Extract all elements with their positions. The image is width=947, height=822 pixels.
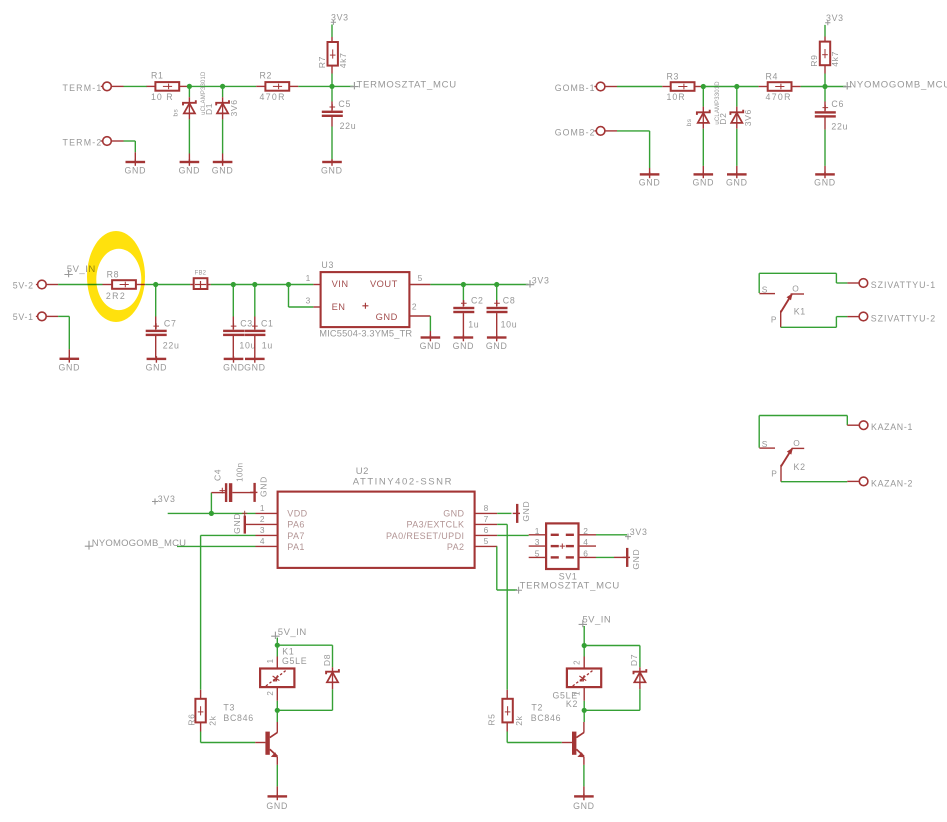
ground GND at U2 pin8 rotated xyxy=(516,504,518,523)
wire U3 GND down xyxy=(429,316,431,331)
ground GND under TERM-2 xyxy=(134,152,136,161)
svg-text:GOMB-1: GOMB-1 xyxy=(555,83,596,93)
wire GOMB-2 to ground xyxy=(617,130,650,132)
svg-text:R3: R3 xyxy=(667,71,680,81)
svg-text:MIC5504-3.3YM5_TR: MIC5504-3.3YM5_TR xyxy=(319,329,412,339)
svg-text:2: 2 xyxy=(260,514,265,524)
svg-text:KAZAN-1: KAZAN-1 xyxy=(871,422,913,432)
transistor T3 BC846 xyxy=(255,742,265,744)
wire SV1 pin2 to 3V3 xyxy=(596,534,627,536)
resistor R5 xyxy=(506,690,508,700)
svg-text:8: 8 xyxy=(484,503,489,513)
wire R7 to node C xyxy=(331,74,333,87)
svg-text:1: 1 xyxy=(306,273,311,283)
node junction F xyxy=(822,84,827,89)
wire node L to 3V3 label xyxy=(497,284,529,286)
wire T2 emitter to ground xyxy=(583,765,585,787)
U3 pin 5 VOUT stub xyxy=(409,284,430,286)
svg-text:3V6: 3V6 xyxy=(743,109,753,126)
svg-text:P: P xyxy=(771,469,777,479)
svg-text:3: 3 xyxy=(535,537,540,547)
pin header SV1 xyxy=(546,523,578,569)
wire GOMB-1 to R3 xyxy=(617,86,662,88)
svg-text:10R: 10R xyxy=(667,92,686,102)
svg-text:GOMB-2: GOMB-2 xyxy=(555,128,596,138)
ground GND right of C4 rotated xyxy=(253,483,255,502)
svg-text:NYOMOGOMB_MCU: NYOMOGOMB_MCU xyxy=(849,79,947,90)
node junction Q xyxy=(582,708,587,713)
svg-text:6: 6 xyxy=(583,548,588,558)
svg-text:bs: bs xyxy=(686,118,693,126)
svg-text:C7: C7 xyxy=(164,318,177,328)
svg-text:C2: C2 xyxy=(471,296,484,306)
svg-text:C5: C5 xyxy=(338,99,351,109)
ground GND under C5 xyxy=(331,159,333,161)
ground GND under GOMB-2 xyxy=(649,168,651,173)
svg-text:3V6: 3V6 xyxy=(229,99,239,116)
svg-text:PA3/EXTCLK: PA3/EXTCLK xyxy=(407,520,465,530)
svg-text:GND: GND xyxy=(443,508,464,518)
connector pin 5V-2 xyxy=(38,280,47,289)
svg-text:1: 1 xyxy=(535,526,540,536)
relay coil K1 G5LE xyxy=(276,657,278,669)
node junction P xyxy=(582,643,587,648)
ground GND under C3 xyxy=(224,358,244,360)
svg-text:GND: GND xyxy=(631,549,641,570)
svg-text:5V_IN: 5V_IN xyxy=(278,627,307,638)
node junction E xyxy=(734,84,739,89)
svg-text:BC846: BC846 xyxy=(531,713,561,723)
svg-text:R4: R4 xyxy=(766,71,779,81)
wire 5V-1 to ground xyxy=(58,315,69,317)
resistor R1 xyxy=(147,85,156,87)
ground GND at SV1 rotated xyxy=(614,556,626,558)
svg-text:O: O xyxy=(792,284,799,294)
svg-text:GND: GND xyxy=(58,363,80,373)
svg-text:GND: GND xyxy=(179,165,201,175)
wire node C to label xyxy=(332,85,354,87)
diode D8 xyxy=(332,667,334,671)
svg-text:GND: GND xyxy=(146,363,168,373)
resistor R2 xyxy=(256,85,265,87)
svg-text:6: 6 xyxy=(484,525,489,535)
capacitor C4 100n xyxy=(210,493,212,511)
svg-text:TERM-2: TERM-2 xyxy=(63,138,103,148)
net label 5V_IN at K2 coil xyxy=(579,620,587,627)
svg-text:TERMOSZTAT_MCU: TERMOSZTAT_MCU xyxy=(357,79,457,90)
svg-text:K2: K2 xyxy=(566,699,578,709)
wire K2 P to KAZAN-2 xyxy=(781,481,847,483)
svg-text:22u: 22u xyxy=(831,122,848,132)
U2 pin 7 PA3 stub xyxy=(475,523,498,525)
svg-text:K1: K1 xyxy=(794,307,806,317)
svg-text:5: 5 xyxy=(535,548,540,558)
wire D7 to node Q xyxy=(639,689,641,710)
svg-text:4k7: 4k7 xyxy=(830,51,840,67)
svg-text:R9: R9 xyxy=(809,55,819,67)
capacitor C3 xyxy=(232,287,234,317)
wire to R4 xyxy=(737,86,759,88)
net label TERMOSZTAT_MCU at SV1 xyxy=(515,587,522,594)
connector pin SZIVATTYU-2 xyxy=(847,316,858,318)
wire PA3 to transistor T2 base column xyxy=(497,523,507,525)
node junction K xyxy=(461,282,466,287)
svg-text:R2: R2 xyxy=(260,71,273,81)
svg-text:5V-2: 5V-2 xyxy=(13,280,34,290)
svg-text:GND: GND xyxy=(321,165,343,175)
connector pin KAZAN-1 xyxy=(847,424,859,426)
svg-text:SZIVATTYU-2: SZIVATTYU-2 xyxy=(871,314,936,324)
wire D1b to ground xyxy=(222,119,224,153)
svg-text:C4: C4 xyxy=(213,469,223,481)
svg-text:5: 5 xyxy=(418,273,423,283)
wire 3V3 to U2 VDD xyxy=(168,512,212,514)
svg-text:GND: GND xyxy=(814,178,836,188)
wire K1 P to SZIVATTYU-2 xyxy=(781,326,837,328)
svg-text:C3: C3 xyxy=(240,318,253,328)
svg-text:D1: D1 xyxy=(204,103,214,115)
wire node G to FB2 xyxy=(156,284,190,286)
svg-text:GND: GND xyxy=(223,363,245,373)
svg-text:2: 2 xyxy=(266,691,275,696)
node junction C xyxy=(329,84,334,89)
U3 pin 3 EN stub xyxy=(313,306,320,308)
node junction A xyxy=(187,84,192,89)
wire junction P down to coil xyxy=(583,646,585,657)
svg-text:R7: R7 xyxy=(317,56,327,68)
svg-text:PA0/RESET/UPDI: PA0/RESET/UPDI xyxy=(386,531,464,541)
net label NYOMOGOMB_MCU top right xyxy=(843,82,851,89)
svg-text:D7: D7 xyxy=(629,654,639,666)
net label NYOMOGOMB_MCU left xyxy=(85,541,93,550)
diode D1b 3V6 xyxy=(222,89,224,97)
connector pin 5V-1 xyxy=(38,312,47,321)
svg-text:2R2: 2R2 xyxy=(106,291,126,301)
U2 pin 6 PA0 stub xyxy=(475,534,498,536)
svg-text:4: 4 xyxy=(583,537,588,547)
wire R9 to node F xyxy=(824,74,826,87)
svg-text:10u: 10u xyxy=(239,340,256,350)
wire C1 to ground xyxy=(254,336,256,358)
connector pin GOMB-1 xyxy=(596,82,605,91)
wire R3 to D2 node xyxy=(703,86,737,88)
highlight yellow circle around R8 xyxy=(87,231,145,322)
ground GND under T2 xyxy=(583,786,585,795)
resistor R9 xyxy=(824,37,826,42)
svg-text:GND: GND xyxy=(453,341,475,351)
svg-text:GND: GND xyxy=(258,476,268,497)
svg-text:T3: T3 xyxy=(223,702,235,712)
svg-text:TERM-1: TERM-1 xyxy=(63,83,103,93)
wire pin8 to ground xyxy=(497,512,511,514)
node junction G xyxy=(153,282,158,287)
wire coil K2 to node Q xyxy=(583,701,585,711)
wire node H to node I xyxy=(233,284,255,286)
wire junction M to VDD stub xyxy=(211,512,255,514)
wire node J to U3 VIN xyxy=(289,284,314,286)
node junction L xyxy=(494,282,499,287)
net label 5V_IN at K1 coil xyxy=(271,632,279,639)
wire PA7 net xyxy=(201,534,256,536)
svg-text:U3: U3 xyxy=(321,260,334,270)
wire R4 to node F xyxy=(801,86,825,88)
diode D2b 3V6 xyxy=(736,89,738,107)
resistor R3 xyxy=(662,86,671,88)
svg-text:3V3: 3V3 xyxy=(158,494,176,504)
wire C6 to ground xyxy=(824,130,826,166)
net label 3V3 at SV1 xyxy=(625,534,631,540)
ground GND under C6 xyxy=(824,166,826,173)
svg-text:C6: C6 xyxy=(831,99,844,109)
ground GND at U2 pin2 rotated xyxy=(244,516,246,534)
svg-text:GND: GND xyxy=(212,165,234,175)
svg-text:SV1: SV1 xyxy=(559,572,578,582)
svg-text:2: 2 xyxy=(412,302,417,312)
node junction I xyxy=(252,282,257,287)
capacitor C5 xyxy=(331,89,333,102)
svg-text:TERMOSZTAT_MCU: TERMOSZTAT_MCU xyxy=(520,581,620,592)
wire node K to node L xyxy=(463,284,496,286)
svg-text:GND: GND xyxy=(232,513,242,534)
svg-text:R1: R1 xyxy=(151,71,164,81)
svg-text:1u: 1u xyxy=(262,340,273,350)
voltage regulator U3 MIC5504 xyxy=(321,272,410,327)
wire R1 to D1 node xyxy=(189,85,222,87)
U2 pin 4 PA1 stub xyxy=(256,545,278,547)
connector pin GOMB-2 xyxy=(596,127,605,136)
wire R2 to node C xyxy=(298,85,332,87)
ground GND under U3 xyxy=(429,331,431,336)
wire node I to node J xyxy=(255,284,289,286)
svg-text:5V_IN: 5V_IN xyxy=(582,615,611,626)
svg-text:10 R: 10 R xyxy=(151,92,174,102)
svg-text:U2: U2 xyxy=(356,466,369,477)
wire R5 to T2 base xyxy=(506,732,508,743)
relay contact K1 xyxy=(758,273,760,293)
wire C5 to ground xyxy=(331,127,333,160)
svg-text:3: 3 xyxy=(260,525,265,535)
connector pin SZIVATTYU-1 xyxy=(847,282,858,284)
wire PA2 down to label xyxy=(496,546,498,590)
capacitor C2 xyxy=(462,287,464,300)
svg-text:470R: 470R xyxy=(260,92,286,102)
wire coil K1 to node O xyxy=(276,701,278,711)
svg-text:5V-1: 5V-1 xyxy=(13,312,34,322)
node junction H xyxy=(231,282,236,287)
transistor T2 BC846 xyxy=(562,742,572,744)
capacitor C6 xyxy=(824,89,826,102)
svg-text:K1: K1 xyxy=(282,647,294,657)
svg-text:GND: GND xyxy=(124,165,146,175)
ground GND under C7 xyxy=(147,358,167,360)
wire EN from node J xyxy=(288,285,290,308)
svg-text:K2: K2 xyxy=(794,462,806,472)
diode D2 (uCLAMP3301D) xyxy=(702,89,704,107)
node TERM-1 net wire xyxy=(124,85,148,87)
svg-text:4k7: 4k7 xyxy=(338,53,348,69)
svg-text:O: O xyxy=(793,438,800,448)
svg-text:3V3: 3V3 xyxy=(532,276,550,286)
svg-text:T2: T2 xyxy=(531,702,543,712)
wire 5V_IN to coil xyxy=(276,638,278,646)
ground GND under T3 xyxy=(276,786,278,795)
ground GND under 5V-1 xyxy=(68,349,70,357)
wire junction N to D8 xyxy=(277,644,332,646)
node junction J xyxy=(286,282,291,287)
node junction M xyxy=(209,511,214,516)
U2 pin 8 GND stub xyxy=(475,512,498,514)
resistor R8 xyxy=(103,284,113,286)
svg-text:GND: GND xyxy=(266,801,288,811)
wire C3 to ground xyxy=(232,336,234,358)
wire junction N down to coil xyxy=(276,645,278,656)
resistor R6 xyxy=(200,690,202,700)
svg-text:22u: 22u xyxy=(163,340,180,350)
svg-text:3V3: 3V3 xyxy=(630,527,648,537)
svg-text:PA2: PA2 xyxy=(447,542,465,552)
resistor R4 xyxy=(759,86,768,88)
wire C7 to ground xyxy=(155,336,157,358)
wire C8 to ground xyxy=(496,313,498,336)
svg-text:BC846: BC846 xyxy=(223,713,253,723)
svg-text:22u: 22u xyxy=(340,121,357,131)
svg-text:D2: D2 xyxy=(718,113,728,125)
svg-text:GND: GND xyxy=(692,178,714,188)
ground GND under D2b xyxy=(736,166,738,173)
svg-text:SZIVATTYU-1: SZIVATTYU-1 xyxy=(871,280,936,290)
node junction N xyxy=(275,643,280,648)
wire 5V-2 to R8 xyxy=(58,284,102,286)
svg-text:PA1: PA1 xyxy=(287,542,305,552)
ground GND under D2 xyxy=(702,166,704,173)
U2 pin 1 VDD stub xyxy=(256,512,278,514)
wire to R2 xyxy=(223,85,257,87)
wire PA0 to SV1 pin1 xyxy=(497,534,529,536)
svg-text:4: 4 xyxy=(260,536,265,546)
svg-text:3V3: 3V3 xyxy=(826,13,844,23)
wire junction P to D7 xyxy=(584,645,640,647)
wire D2 to ground xyxy=(702,129,704,166)
svg-text:bs: bs xyxy=(172,108,179,116)
svg-text:ATTINY402-SSNR: ATTINY402-SSNR xyxy=(353,477,453,488)
wire VOUT to 3V3 xyxy=(430,284,463,286)
ferrite bead FB2 xyxy=(190,284,194,286)
svg-text:R8: R8 xyxy=(107,270,120,280)
svg-text:100n: 100n xyxy=(236,462,245,481)
svg-text:7: 7 xyxy=(484,514,489,524)
U2 pin 5 PA2 stub xyxy=(475,545,498,547)
capacitor C1 xyxy=(254,287,256,317)
svg-text:VDD: VDD xyxy=(287,508,307,518)
svg-text:3: 3 xyxy=(306,295,311,305)
node junction B xyxy=(220,84,225,89)
svg-text:PA6: PA6 xyxy=(287,520,305,530)
connector pin KAZAN-2 xyxy=(847,480,859,482)
node junction D xyxy=(701,84,706,89)
svg-text:R6: R6 xyxy=(186,714,196,726)
wire 5V_IN to K2 coil xyxy=(583,626,585,646)
svg-text:GND: GND xyxy=(486,341,508,351)
svg-text:VOUT: VOUT xyxy=(370,279,398,289)
ground GND under C1 xyxy=(245,358,265,360)
wire R6 to T3 base xyxy=(200,732,202,743)
svg-text:GND: GND xyxy=(376,312,398,322)
svg-text:GND: GND xyxy=(420,341,442,351)
wire C2 to ground xyxy=(462,313,464,336)
svg-text:D8: D8 xyxy=(322,654,332,666)
svg-text:1: 1 xyxy=(260,503,265,513)
wire D1 to ground xyxy=(188,119,190,153)
wire node F to label xyxy=(825,86,846,88)
svg-text:VIN: VIN xyxy=(332,279,349,289)
svg-text:10u: 10u xyxy=(501,320,518,330)
ground GND under D1 xyxy=(188,154,190,161)
svg-text:1u: 1u xyxy=(468,320,479,330)
svg-text:2: 2 xyxy=(573,660,582,665)
svg-text:GND: GND xyxy=(244,363,266,373)
relay coil K2 G5LE xyxy=(583,657,585,669)
relay contact K2 xyxy=(758,416,760,448)
svg-text:5: 5 xyxy=(484,536,489,546)
wire D2b to ground xyxy=(736,129,738,166)
svg-text:NYOMOGOMB_MCU: NYOMOGOMB_MCU xyxy=(92,538,186,549)
ground GND under D1b xyxy=(222,154,224,161)
svg-text:P: P xyxy=(771,314,777,324)
capacitor C7 xyxy=(155,287,157,317)
wire PA1 net xyxy=(177,545,256,547)
svg-text:FB2: FB2 xyxy=(195,271,207,277)
U3 pin 2 GND stub xyxy=(409,315,430,317)
wire R8 to node G xyxy=(145,284,156,286)
wire D8 to node O xyxy=(332,689,334,710)
wire T3 emitter to ground xyxy=(276,765,278,787)
diode D7 xyxy=(639,667,641,671)
svg-text:S: S xyxy=(762,439,768,449)
svg-text:GND: GND xyxy=(726,178,748,188)
U2 pin 2 PA6 stub with ground xyxy=(246,523,278,525)
net label 3V3 at regulator output xyxy=(526,280,534,287)
supply 3V3 at U2 xyxy=(152,499,158,505)
connector pin TERM-1 xyxy=(103,82,112,91)
node junction O xyxy=(275,708,280,713)
diode D1 (uCLAMP3301D) xyxy=(188,89,190,97)
svg-text:PA7: PA7 xyxy=(287,531,305,541)
connector pin TERM-2 xyxy=(103,137,112,146)
svg-text:1: 1 xyxy=(266,658,275,663)
U3 pin 1 VIN stub xyxy=(313,284,320,286)
svg-text:C8: C8 xyxy=(503,296,516,306)
svg-text:R5: R5 xyxy=(486,714,496,726)
svg-text:C1: C1 xyxy=(261,318,274,328)
wire FB2 to node H xyxy=(211,284,234,286)
microcontroller U2 ATTINY402 xyxy=(278,492,475,568)
svg-text:GND: GND xyxy=(521,501,531,522)
svg-text:EN: EN xyxy=(332,302,346,312)
svg-text:G5LE: G5LE xyxy=(282,656,307,666)
svg-text:GND: GND xyxy=(573,801,595,811)
ground GND under C2 xyxy=(454,336,474,338)
svg-text:2: 2 xyxy=(583,526,588,536)
svg-text:470R: 470R xyxy=(766,92,792,102)
resistor R7 xyxy=(331,37,333,42)
svg-text:2k: 2k xyxy=(207,715,217,725)
capacitor C8 xyxy=(496,287,498,300)
ground GND under C8 xyxy=(487,336,507,338)
svg-text:KAZAN-2: KAZAN-2 xyxy=(871,478,913,488)
svg-text:GND: GND xyxy=(639,178,661,188)
svg-text:S: S xyxy=(762,284,768,294)
wire SV1 pin6 to ground xyxy=(596,556,614,558)
